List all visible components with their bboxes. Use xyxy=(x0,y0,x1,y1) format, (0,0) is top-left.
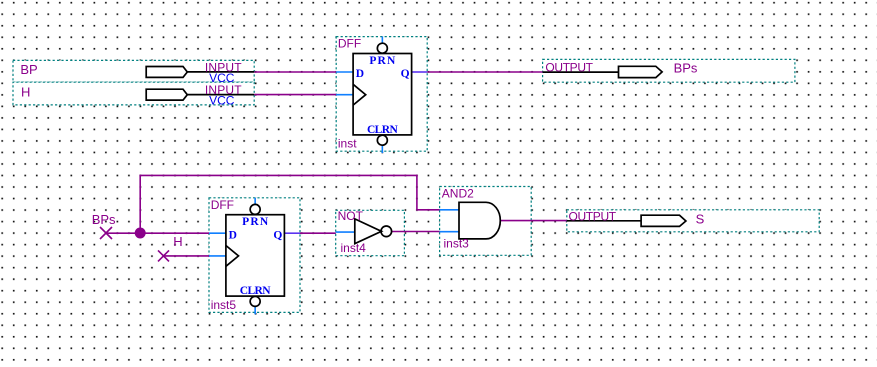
svg-text:S: S xyxy=(696,211,705,226)
svg-text:CLRN: CLRN xyxy=(240,285,271,297)
svg-text:H: H xyxy=(173,234,182,249)
svg-text:BPs: BPs xyxy=(92,212,116,227)
svg-text:DFF: DFF xyxy=(338,37,361,51)
svg-text:D: D xyxy=(356,68,364,80)
svg-text:inst4: inst4 xyxy=(341,241,367,255)
svg-text:inst: inst xyxy=(338,137,357,151)
svg-text:H: H xyxy=(21,84,30,99)
svg-text:Q: Q xyxy=(273,229,282,241)
svg-text:inst5: inst5 xyxy=(211,298,237,312)
svg-text:NOT: NOT xyxy=(338,209,364,223)
svg-text:OUTPUT: OUTPUT xyxy=(545,60,593,74)
svg-text:DFF: DFF xyxy=(211,198,234,212)
svg-text:PRN: PRN xyxy=(242,216,269,228)
svg-text:BP: BP xyxy=(20,62,37,77)
svg-text:CLRN: CLRN xyxy=(367,124,398,136)
svg-text:inst3: inst3 xyxy=(444,237,470,251)
svg-text:BPs: BPs xyxy=(674,61,698,76)
svg-text:VCC: VCC xyxy=(209,94,235,108)
svg-text:Q: Q xyxy=(401,68,410,80)
svg-text:OUTPUT: OUTPUT xyxy=(569,210,617,224)
svg-text:AND2: AND2 xyxy=(442,187,474,201)
svg-text:D: D xyxy=(229,229,237,241)
svg-text:PRN: PRN xyxy=(369,55,396,67)
